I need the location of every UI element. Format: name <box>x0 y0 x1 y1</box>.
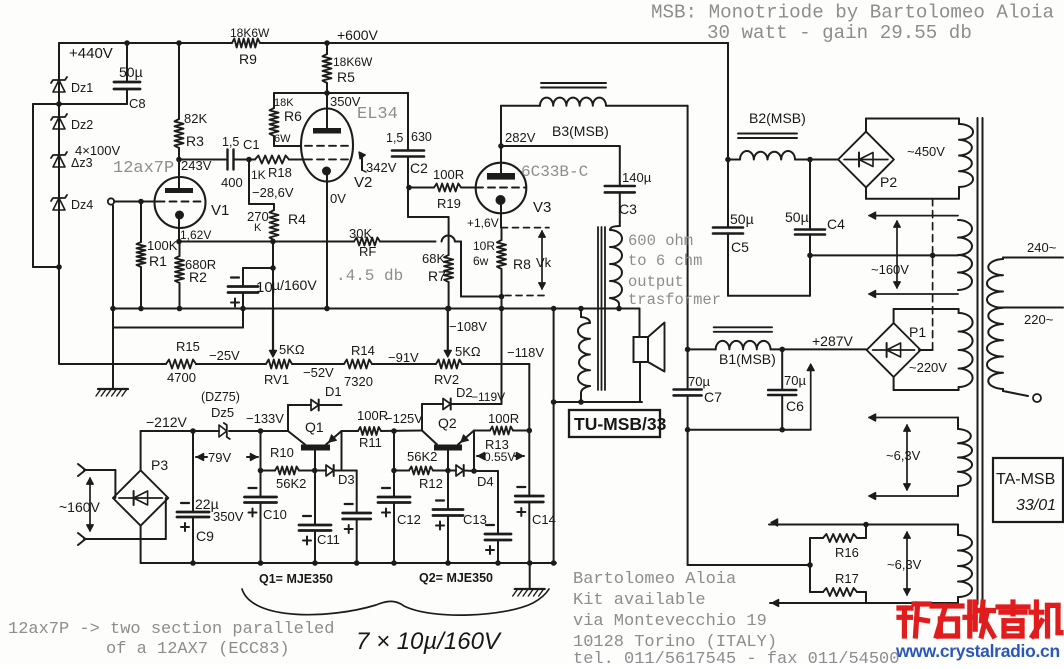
svg-text:V1: V1 <box>211 202 229 219</box>
svg-text:240~: 240~ <box>1027 240 1057 255</box>
svg-text:630: 630 <box>411 130 432 144</box>
svg-text:342V: 342V <box>366 160 397 175</box>
svg-text:R16: R16 <box>835 545 859 560</box>
svg-text:C12: C12 <box>397 512 421 527</box>
svg-text:600 ohm: 600 ohm <box>628 232 693 250</box>
svg-text:C11: C11 <box>317 532 340 547</box>
svg-text:~6,3V: ~6,3V <box>887 557 922 572</box>
svg-text:−28,6V: −28,6V <box>252 185 294 200</box>
svg-text:.4.5 db: .4.5 db <box>336 267 403 285</box>
svg-text:50µ: 50µ <box>785 209 809 225</box>
svg-text:350V: 350V <box>213 509 244 524</box>
svg-text:−108V: −108V <box>449 319 487 334</box>
svg-text:+287V: +287V <box>812 333 854 349</box>
svg-text:400: 400 <box>221 175 243 190</box>
svg-text:Kit available: Kit available <box>573 591 706 610</box>
svg-text:~220V: ~220V <box>909 360 947 375</box>
svg-text:−212V: −212V <box>146 414 188 430</box>
svg-text:−52V: −52V <box>303 365 334 380</box>
svg-text:18K6W: 18K6W <box>333 55 373 69</box>
svg-text:5KΩ: 5KΩ <box>455 344 481 359</box>
svg-text:C1: C1 <box>243 137 260 152</box>
svg-text:18K6W: 18K6W <box>230 26 270 40</box>
svg-text:−125V: −125V <box>385 411 423 426</box>
svg-text:C8: C8 <box>129 96 146 111</box>
svg-text:P2: P2 <box>880 174 897 190</box>
svg-text:R17: R17 <box>835 571 859 586</box>
svg-text:100K: 100K <box>147 238 178 253</box>
svg-text:D4: D4 <box>477 474 494 489</box>
svg-text:Q2: Q2 <box>438 415 457 431</box>
svg-text:P3: P3 <box>151 457 168 473</box>
svg-text:R15: R15 <box>176 339 200 354</box>
svg-text:K: K <box>254 222 262 234</box>
svg-text:RV1: RV1 <box>264 372 289 387</box>
svg-text:RF: RF <box>359 244 376 259</box>
svg-text:100R: 100R <box>433 167 464 182</box>
svg-text:10R: 10R <box>473 239 495 253</box>
svg-text:P1: P1 <box>909 324 926 340</box>
svg-text:Vk: Vk <box>536 255 552 270</box>
svg-text:−91V: −91V <box>388 350 419 365</box>
svg-text:TA-MSB: TA-MSB <box>996 471 1055 488</box>
svg-text:30K: 30K <box>349 226 372 241</box>
svg-text:of a 12AX7 (ECC83): of a 12AX7 (ECC83) <box>106 640 290 659</box>
svg-text:~450V: ~450V <box>907 144 945 159</box>
svg-text:220~: 220~ <box>1024 312 1054 327</box>
svg-text:MSB: Monotriode by Bartolomeo: MSB: Monotriode by Bartolomeo Aloia <box>651 2 1054 24</box>
svg-text:EL34: EL34 <box>357 105 398 124</box>
svg-text:1K: 1K <box>251 168 266 182</box>
svg-text:D1: D1 <box>325 384 342 399</box>
svg-text:79V: 79V <box>208 450 231 465</box>
svg-text:~160V: ~160V <box>871 262 909 277</box>
svg-text:TU-MSB/33: TU-MSB/33 <box>574 414 667 434</box>
svg-text:Dz2: Dz2 <box>71 118 93 132</box>
svg-text:V3: V3 <box>533 199 551 216</box>
svg-text:R8: R8 <box>513 256 531 272</box>
svg-text:5KΩ: 5KΩ <box>279 342 305 357</box>
svg-text:7320: 7320 <box>344 374 373 389</box>
svg-text:70µ: 70µ <box>784 373 806 388</box>
svg-text:Q1: Q1 <box>305 419 324 435</box>
svg-text:R1: R1 <box>149 253 167 269</box>
svg-text:Dz4: Dz4 <box>71 198 93 212</box>
svg-text:282V: 282V <box>505 130 536 145</box>
svg-text:output: output <box>628 273 684 291</box>
svg-text:100R: 100R <box>357 408 388 423</box>
svg-text:10: 10 <box>256 279 273 296</box>
svg-text:R14: R14 <box>351 343 375 358</box>
svg-text:to 6 chm: to 6 chm <box>628 252 702 270</box>
svg-text:B3(MSB): B3(MSB) <box>552 123 609 139</box>
svg-text:0V: 0V <box>330 191 346 206</box>
svg-text:R2: R2 <box>189 269 207 285</box>
svg-text:R9: R9 <box>239 51 257 67</box>
svg-text:~160V: ~160V <box>59 499 101 515</box>
svg-text:12ax7P: 12ax7P <box>113 159 174 178</box>
svg-text:B1(MSB): B1(MSB) <box>719 351 776 367</box>
svg-text:C9: C9 <box>196 528 214 544</box>
svg-text:−118V: −118V <box>507 345 544 360</box>
svg-text:56K2: 56K2 <box>276 476 306 491</box>
svg-text:−133V: −133V <box>246 411 284 426</box>
svg-text:Δz3: Δz3 <box>71 156 93 170</box>
svg-text:V2: V2 <box>354 174 372 191</box>
svg-text:C2: C2 <box>410 160 428 176</box>
svg-text:56K2: 56K2 <box>407 449 437 464</box>
svg-text:R3: R3 <box>186 133 204 149</box>
svg-text:Dz1: Dz1 <box>71 81 93 95</box>
svg-text:R10: R10 <box>270 445 294 460</box>
svg-text:50µ: 50µ <box>119 64 143 80</box>
svg-text:R4: R4 <box>288 211 306 227</box>
svg-text:R11: R11 <box>359 435 382 450</box>
svg-text:+1,6V: +1,6V <box>467 216 499 230</box>
svg-text:1,62V: 1,62V <box>180 228 211 242</box>
svg-text:C14: C14 <box>532 512 556 527</box>
svg-text:C10: C10 <box>263 507 287 522</box>
svg-text:C5: C5 <box>731 239 749 255</box>
svg-text:C4: C4 <box>827 216 845 232</box>
svg-text:Bartolomeo Aloia: Bartolomeo Aloia <box>573 570 736 589</box>
svg-text:Dz5: Dz5 <box>211 405 234 420</box>
svg-text:68K: 68K <box>422 251 445 266</box>
svg-text:R6: R6 <box>284 108 302 124</box>
svg-text:µ/160V: µ/160V <box>272 277 317 293</box>
svg-text:140µ: 140µ <box>622 170 652 185</box>
svg-text:www.crystalradio.cn: www.crystalradio.cn <box>895 641 1060 661</box>
svg-text:(DZ75): (DZ75) <box>201 390 240 404</box>
svg-text:trasformer: trasformer <box>628 291 721 309</box>
svg-text:C13: C13 <box>463 512 487 527</box>
svg-text:1,5: 1,5 <box>222 135 239 149</box>
svg-text:C6: C6 <box>786 398 804 414</box>
svg-text:R19: R19 <box>437 196 461 211</box>
svg-text:R12: R12 <box>419 476 443 491</box>
svg-text:Q2= MJE350: Q2= MJE350 <box>419 571 493 585</box>
svg-text:B2(MSB): B2(MSB) <box>749 110 806 126</box>
svg-text:C7: C7 <box>704 389 722 405</box>
svg-text:Q1= MJE350: Q1= MJE350 <box>259 572 333 586</box>
svg-text:R18: R18 <box>268 165 292 180</box>
svg-text:~6,3V: ~6,3V <box>886 448 921 463</box>
svg-text:tel. 011/5617545 - fax 011/545: tel. 011/5617545 - fax 011/54500 <box>573 650 899 664</box>
svg-text:12ax7P -> two section parallel: 12ax7P -> two section paralleled <box>8 620 334 639</box>
svg-text:0.55V: 0.55V <box>484 450 515 464</box>
svg-text:+440V: +440V <box>69 45 113 62</box>
svg-text:6C33B-C: 6C33B-C <box>521 163 588 181</box>
svg-text:R5: R5 <box>337 69 355 85</box>
svg-text:4700: 4700 <box>167 370 196 385</box>
svg-text:30 watt - gain 29.55 db: 30 watt - gain 29.55 db <box>707 22 972 44</box>
svg-text:via Montevecchio 19: via Montevecchio 19 <box>573 612 767 631</box>
svg-text:1,5: 1,5 <box>386 131 403 145</box>
svg-text:100R: 100R <box>488 411 519 426</box>
svg-text:D3: D3 <box>338 472 355 487</box>
svg-text:6w: 6w <box>473 254 489 268</box>
svg-text:6W: 6W <box>274 133 291 145</box>
svg-text:4×100V: 4×100V <box>75 143 121 158</box>
svg-text:70µ: 70µ <box>688 374 710 389</box>
svg-text:50µ: 50µ <box>730 211 754 227</box>
svg-text:−119V: −119V <box>471 390 505 404</box>
svg-text:7 × 10µ/160V: 7 × 10µ/160V <box>356 628 502 655</box>
svg-text:+600V: +600V <box>337 27 379 43</box>
svg-text:−25V: −25V <box>209 348 240 363</box>
svg-text:C3: C3 <box>619 201 637 217</box>
svg-text:82K: 82K <box>184 111 207 126</box>
svg-text:R7: R7 <box>428 268 446 284</box>
svg-text:33/01: 33/01 <box>1016 497 1056 514</box>
